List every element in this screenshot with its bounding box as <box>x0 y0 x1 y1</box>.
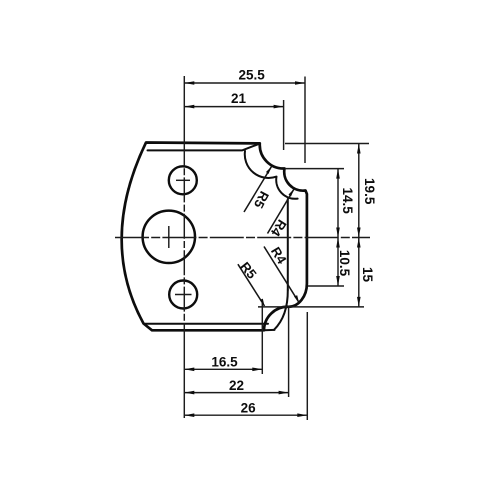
upper scallop bevel line <box>245 151 298 199</box>
hole small bottom <box>169 281 197 309</box>
leader arrowheads <box>266 167 272 175</box>
svg-text:R5: R5 <box>251 189 272 211</box>
hole small top <box>169 166 197 194</box>
hole large <box>143 211 195 263</box>
knife body outline <box>122 143 307 331</box>
small bottom hole center tick <box>175 294 192 296</box>
svg-text:22: 22 <box>229 378 244 393</box>
extension from cusp for 14.5 <box>285 168 344 170</box>
dim 15 line <box>358 238 360 307</box>
svg-text:15: 15 <box>360 267 375 283</box>
dim 16.5 right extension <box>261 303 263 374</box>
svg-text:R4: R4 <box>268 244 290 267</box>
arrows 21 <box>184 105 194 109</box>
small top hole center tick <box>176 179 190 181</box>
vertical centerline solid bottom <box>183 333 185 418</box>
arrows 26 <box>184 413 194 417</box>
bevel vertical line <box>287 199 289 290</box>
leader R5 upper <box>244 167 272 213</box>
arrows 22 <box>184 391 194 395</box>
dim 19.5 line <box>358 144 360 238</box>
dim 25.5 line <box>184 82 305 84</box>
extension 10.5 <box>308 285 344 287</box>
top edge right extension <box>285 143 369 145</box>
dim 14.5 line <box>337 169 339 238</box>
lower corner bevel arc <box>274 290 288 330</box>
vertical centerline solid top <box>183 76 185 141</box>
dim 26 line <box>184 414 307 416</box>
svg-text:19.5: 19.5 <box>362 178 377 205</box>
bottom edge inner bevel line <box>145 323 268 325</box>
arrows 10.5 <box>336 238 340 248</box>
svg-text:R4: R4 <box>267 217 289 240</box>
arrows 14.5 <box>336 169 340 179</box>
extension 15 <box>258 306 364 308</box>
svg-text:14.5: 14.5 <box>340 187 355 214</box>
leader R4 upper <box>268 189 295 234</box>
svg-text:16.5: 16.5 <box>211 355 238 370</box>
svg-text:25.5: 25.5 <box>238 67 265 82</box>
dim 26 right extension <box>306 312 308 420</box>
vertical centerline dashed middle <box>183 141 185 333</box>
svg-text:26: 26 <box>241 400 257 415</box>
dim 16.5 line <box>184 368 262 370</box>
top edge inner bevel line <box>148 144 260 151</box>
svg-text:21: 21 <box>231 91 247 106</box>
bottom edge outer segment under scallop <box>264 329 275 331</box>
arrows 16.5 <box>184 368 194 372</box>
leader R5 lower <box>238 264 265 306</box>
dim 25.5 right extension <box>304 77 306 164</box>
arrows 25.5 <box>184 81 194 85</box>
dim 21 right extension <box>283 100 285 150</box>
horizontal centerline <box>115 237 370 239</box>
arrows 15 <box>357 238 361 248</box>
leader R4 lower <box>264 247 299 303</box>
dim 21 line <box>184 106 283 108</box>
svg-text:R5: R5 <box>237 259 259 282</box>
svg-text:10.5: 10.5 <box>337 250 352 277</box>
large hole center tick <box>168 226 170 248</box>
dim 22 right extension <box>288 308 290 397</box>
dim 10.5 line <box>337 238 339 287</box>
dim 22 line <box>184 392 288 394</box>
arrows 19.5 <box>357 144 361 154</box>
